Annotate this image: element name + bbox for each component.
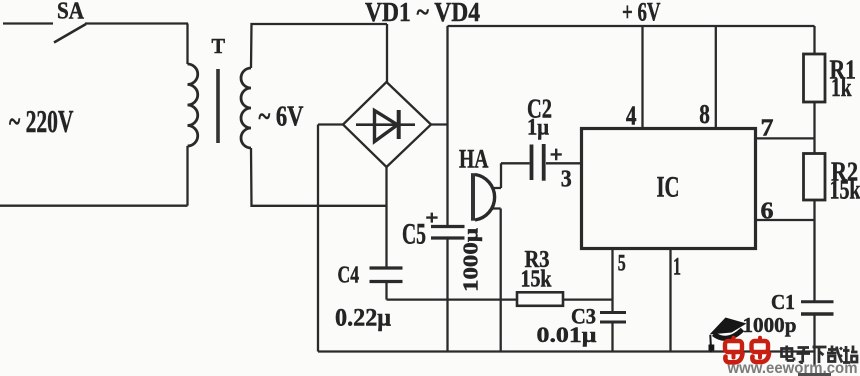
svg-text:1000p: 1000p — [743, 313, 797, 337]
svg-text:C5: C5 — [402, 218, 426, 251]
svg-text:15k: 15k — [830, 174, 860, 204]
svg-text:6: 6 — [761, 199, 774, 225]
svg-text:1μ: 1μ — [527, 114, 549, 139]
svg-text:0.22μ: 0.22μ — [335, 305, 391, 332]
svg-text:8: 8 — [699, 99, 710, 129]
svg-text:1: 1 — [673, 254, 681, 281]
svg-text:IC: IC — [657, 171, 680, 204]
svg-text:HA: HA — [459, 145, 489, 174]
svg-text:1000μ: 1000μ — [459, 228, 483, 292]
svg-text:15k: 15k — [521, 266, 553, 292]
svg-text:+ 6V: + 6V — [622, 0, 661, 26]
svg-text:C4: C4 — [338, 263, 360, 289]
svg-text:1k: 1k — [831, 73, 852, 102]
svg-text:7: 7 — [761, 115, 774, 141]
svg-text:~ 6V: ~ 6V — [259, 101, 304, 133]
svg-text:T: T — [212, 34, 226, 58]
svg-text:C1: C1 — [771, 290, 795, 314]
svg-text:SA: SA — [57, 0, 85, 25]
svg-text:~ 220V: ~ 220V — [9, 103, 74, 139]
svg-text:www.eeworm.com: www.eeworm.com — [727, 360, 858, 376]
svg-text:5: 5 — [618, 251, 626, 277]
svg-text:4: 4 — [626, 101, 637, 131]
svg-text:VD1 ~ VD4: VD1 ~ VD4 — [365, 0, 480, 27]
svg-text:3: 3 — [561, 167, 572, 193]
svg-text:0.01μ: 0.01μ — [537, 322, 598, 347]
